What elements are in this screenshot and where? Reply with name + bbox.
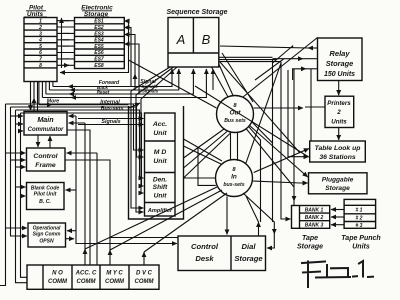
wire: left rail 3 to commutator row [16, 110, 28, 283]
wire: internal bus 2 [11, 107, 144, 157]
svg-text:# 2: # 2 [356, 216, 363, 222]
wire: bus1 Forward/Signal arrow then up into sequence storage [68, 86, 77, 88]
box: Control Frame [27, 148, 66, 171]
wire: rail stub into Control Frame 2 [11, 159, 26, 161]
wire: rail stub into Blank Code 2 [21, 195, 26, 197]
box: arithmetic column Acc/MD/Den/Amplifier [145, 113, 176, 216]
wire: sequence right bundle line a [219, 56, 273, 58]
box: Printers [325, 96, 354, 127]
box: Table Look up [310, 141, 366, 162]
wire: internal bus-sets callout arrow [129, 103, 140, 108]
node: 8 Out Bus sets circle [217, 96, 254, 133]
svg-text:ES7: ES7 [94, 57, 104, 63]
svg-text:6: 6 [39, 50, 42, 56]
wire: relay top line leftward to sequence storage [308, 47, 318, 49]
wire: signals pair into Acc Unit a [78, 118, 144, 120]
wire: left rail 1 down side [6, 104, 28, 228]
svg-text:COMM: COMM [135, 279, 155, 285]
wire: comm riser arrow MYC [109, 250, 111, 265]
svg-text:ES3: ES3 [94, 31, 104, 37]
svg-text:ES8: ES8 [94, 63, 104, 69]
wire: in circle to pluggable left [253, 181, 308, 183]
wire: More bus with arrow [39, 104, 52, 106]
underline marks for labels [24, 11, 112, 17]
wire: inter-circle verticals [231, 132, 238, 161]
wire: punch to bank row1 [331, 209, 344, 211]
wire: rail stub into Main Commutator 2 [16, 123, 24, 125]
wire: punch to bank row3 [331, 224, 344, 226]
svg-text:In: In [231, 174, 237, 181]
wire: comm riser diagonals to In circle [85, 187, 217, 249]
svg-text:BANK 1: BANK 1 [305, 208, 324, 214]
wire: rail stub into Control Frame 1 [6, 152, 26, 154]
wire: rail272 down [272, 60, 274, 143]
wire: riser arrow into seq bottom x213 [212, 69, 214, 90]
wire: long cross diagonal b [220, 62, 300, 153]
svg-text:2: 2 [38, 25, 42, 31]
wire: feed into relay low [293, 69, 306, 80]
svg-text:N O: N O [52, 271, 63, 277]
svg-text:Bus sets: Bus sets [224, 118, 246, 124]
wire: sequence bottom-left diagonal c [141, 67, 177, 99]
row labels ES1-ES8 [94, 19, 104, 69]
node: 8 In bus-sets circle [216, 160, 253, 197]
wire: OPSN right arrow out [66, 238, 75, 240]
wire: rail stub into Blank Code 1 [16, 186, 26, 188]
svg-text:Frame: Frame [35, 162, 56, 169]
svg-text:Printers: Printers [327, 100, 351, 107]
wire: rail294 down into spine top [293, 69, 295, 201]
wire: pilot plain drop to MC top [37, 82, 39, 112]
wire: rail stub into Main Commutator 1 [11, 115, 24, 117]
wire: seq right diagonal down to out circle [222, 53, 253, 102]
wire: bottom-left edge stub [0, 228, 6, 286]
svg-text:Desk: Desk [195, 254, 214, 263]
wire: loop around arithmetic column [129, 106, 184, 219]
wire: diagonal ES-wrap to Out circle [129, 60, 217, 108]
wire: ES wrap line into pilot lower section [60, 21, 129, 73]
wire: MC right arrow-in 2 and riser ACC.C [69, 122, 86, 124]
wire: pilot drop to bus3 [45, 82, 47, 95]
wire: pilot drop to bus2 [48, 82, 50, 91]
wire: out circle to printers left [254, 107, 304, 109]
wire: bus3 Reset/Signals [69, 93, 78, 95]
svg-text:Dial: Dial [242, 242, 257, 251]
wire: dial storage up line to in circle [258, 222, 260, 236]
wire: MC right line down to comm [67, 130, 90, 265]
wire: MC-CF link down [37, 135, 39, 147]
wire: bus4 lower signals [71, 97, 80, 99]
row digits pilot [38, 19, 42, 69]
svg-text:Storage: Storage [326, 59, 354, 68]
svg-text:Storage: Storage [325, 185, 350, 192]
wire: internal bus 1 from left rail [6, 104, 144, 150]
svg-text:Tape Punch: Tape Punch [341, 235, 380, 242]
svg-text:Den.: Den. [153, 177, 167, 184]
svg-text:COMM: COMM [48, 279, 68, 285]
wires layer [0, 18, 344, 286]
wire: mid-right vertical b [252, 122, 273, 222]
svg-text:Units: Units [352, 244, 370, 251]
svg-text:COMM: COMM [105, 279, 125, 285]
wire: pilot drop to bus1 [52, 82, 54, 87]
svg-text:Relay: Relay [329, 49, 350, 58]
svg-text:8: 8 [233, 103, 237, 109]
svg-text:Commutator: Commutator [28, 127, 64, 133]
svg-text:B. C.: B. C. [39, 199, 51, 205]
wire: signals pair into Acc Unit b [78, 124, 144, 126]
wire: seq diagonal drop into Den unit [141, 99, 144, 193]
svg-text:Shift: Shift [153, 184, 168, 191]
svg-text:# 1: # 1 [356, 208, 363, 214]
svg-text:M D: M D [154, 149, 167, 156]
svg-text:M Y C: M Y C [106, 271, 123, 277]
svg-text:A: A [176, 32, 186, 47]
wire: MYC link over to control desk [110, 237, 178, 239]
wire: comm riser arrow DVC [143, 252, 145, 265]
box: Tape Storage banks [292, 206, 330, 229]
wire: in circle left horizontal [184, 177, 216, 179]
box: Sequence Storage [168, 18, 219, 68]
svg-text:ES6: ES6 [94, 50, 104, 56]
box: Blank Code Pilot Unit [27, 183, 65, 210]
wire: ES right-edge feeder row3 [124, 35, 135, 91]
svg-text:Tape: Tape [302, 235, 318, 242]
svg-text:Pilot Unit: Pilot Unit [34, 192, 57, 198]
svg-text:Sequence Storage: Sequence Storage [166, 9, 227, 16]
wire: long cross diagonal a [195, 86, 309, 157]
svg-text:B: B [202, 32, 211, 47]
svg-text:ES5: ES5 [94, 44, 104, 50]
wire: ES feeder up-arrow [134, 74, 136, 84]
wire: rail288 down to table lookup [288, 70, 309, 157]
wire: blank code right stub [66, 189, 77, 191]
wire: bus2 Back/Signals [70, 89, 79, 91]
wire: L-feed into in circle left [198, 147, 216, 185]
wire: out-circle riser joining bundle [255, 59, 284, 80]
svg-text:5: 5 [39, 44, 42, 50]
svg-text:2: 2 [336, 109, 341, 116]
wire: in circle up-left diag pair [184, 139, 223, 164]
wire: sequence bottom-left diagonal a [131, 67, 170, 91]
figure label: Fig.1. [302, 261, 373, 287]
svg-text:Unit: Unit [154, 193, 168, 200]
svg-text:Pluggable: Pluggable [322, 177, 354, 184]
wire: ES right-edge feeder row2 [124, 28, 131, 88]
wire: relay to printers [338, 81, 340, 96]
wire: seq bottom-right diagonal to out circle b [219, 64, 233, 96]
svg-text:BANK 2: BANK 2 [305, 215, 324, 221]
wire: CF right arrow-in and run down to comm [67, 152, 98, 154]
wire: printers to table lookup [338, 128, 340, 141]
wire: in circle steep riser to bundle corner [246, 63, 281, 163]
box: Control Desk / Dial Storage [178, 236, 266, 271]
svg-text:ACC. C: ACC. C [75, 271, 97, 277]
box: Pilot Units table [24, 18, 57, 82]
wire: ES right-edge feeder row1 [124, 20, 128, 22]
svg-text:1: 1 [39, 19, 42, 25]
svg-text:Unit: Unit [153, 130, 167, 137]
wire: in circle down to dial right side [243, 193, 274, 234]
wire: ES right-edge feeder row4 [124, 44, 139, 94]
svg-text:Control: Control [33, 153, 57, 160]
wire: pilot/ES middle vertical riser [61, 18, 63, 68]
wire: MC up-arrow link to pilot box [33, 98, 35, 112]
svg-text:150 Units: 150 Units [324, 71, 355, 78]
wire: OPSN right arrow in [67, 230, 76, 232]
svg-text:Control: Control [191, 242, 219, 251]
wire: in circle drop into control desk top [226, 197, 228, 235]
wire: CF right line to riser MYC [65, 160, 110, 252]
svg-text:8: 8 [39, 63, 42, 69]
box: Electronic Storage table [75, 18, 125, 69]
svg-text:COMM: COMM [77, 279, 97, 285]
svg-text:Unit: Unit [153, 158, 167, 165]
wire: punch to bank row2 [331, 216, 344, 218]
wire: pilot bottom drop with arrow into Main Commutator [30, 82, 32, 111]
svg-text:Main: Main [37, 115, 54, 124]
svg-text:# 3: # 3 [356, 223, 363, 229]
wire: out circle diag to bank rail [246, 129, 294, 188]
svg-text:D V C: D V C [136, 271, 153, 277]
box: Main Commutator [24, 112, 67, 136]
wire: internal bus 4 [21, 113, 144, 186]
wire: MC right arrow-in 1 and run to control desk left [69, 115, 77, 117]
wire: pilot drop to bus4 [41, 82, 43, 98]
wire: rail stub into Main Commutator 3 [21, 130, 24, 132]
svg-text:BANK 3: BANK 3 [305, 223, 324, 229]
svg-text:ES1: ES1 [94, 19, 104, 25]
wire: out circle up-right to relay corner [243, 38, 318, 98]
wire: seq diagonal drop into Amplifier a [131, 91, 144, 208]
svg-text:bus-sets: bus-sets [223, 182, 244, 188]
svg-text:Acc.: Acc. [152, 121, 167, 128]
svg-text:Amplifier: Amplifier [147, 208, 173, 214]
wire: rail281 down to tape storage spine [281, 62, 291, 219]
wire: CF-MC link up [49, 136, 51, 148]
svg-text:Table Look up: Table Look up [315, 145, 361, 152]
svg-text:8: 8 [232, 167, 236, 173]
wire: bundle feed into relay mid [273, 58, 304, 60]
box: Pluggable Storage [309, 173, 368, 194]
svg-text:3: 3 [39, 31, 42, 37]
wire: seq bottom-right diagonal to out circle a [212, 67, 229, 97]
wire: comm riser arrow ACC.C [84, 249, 86, 265]
wire: mid-right vertical a [249, 127, 261, 222]
svg-text:4: 4 [38, 38, 42, 44]
wire: sequence right bundle line b [219, 59, 277, 61]
box: Operational Sign Comm OPSN [28, 223, 66, 247]
box: commutator row NO/ACC.C/MYC/DVC [27, 265, 159, 289]
svg-text:ES2: ES2 [94, 25, 104, 31]
wire: left rail 2 [11, 107, 28, 236]
svg-text:ES4: ES4 [94, 38, 104, 44]
wire: left rail 4 to commutator row [21, 113, 28, 277]
wire: out circle lower-left diag triple [184, 129, 231, 178]
wire: sequence right bundle line c [219, 61, 281, 63]
wire: seq diagonal drop into Amplifier b [136, 95, 144, 212]
wire: rail311 down to table lookup corner [310, 69, 312, 141]
wire: pilot-ES row connectors with arrows [57, 21, 75, 66]
wire: bundle corner diagonal [273, 46, 293, 63]
box: Relay Storage [318, 38, 363, 81]
wire: in circle diag up-right to table lookup [254, 149, 309, 173]
svg-text:Storage: Storage [297, 244, 323, 251]
wire: sequence bottom-left diagonal b [136, 67, 174, 95]
svg-text:Storage: Storage [234, 254, 263, 263]
svg-text:OPSN: OPSN [39, 239, 54, 245]
wire: pilot drop to More bus [38, 82, 40, 105]
svg-text:Sign Comm: Sign Comm [33, 232, 61, 238]
svg-text:Out: Out [229, 110, 241, 117]
box: Tape Punch Units [344, 199, 376, 228]
wire: internal bus 3 [16, 110, 144, 178]
svg-text:Units: Units [331, 119, 347, 126]
wire: rail stub into Control Frame 3 [16, 166, 26, 168]
svg-text:7: 7 [39, 57, 42, 63]
wire: out circle diag to pluggable [249, 125, 308, 177]
svg-text:36 Stations: 36 Stations [319, 154, 355, 161]
